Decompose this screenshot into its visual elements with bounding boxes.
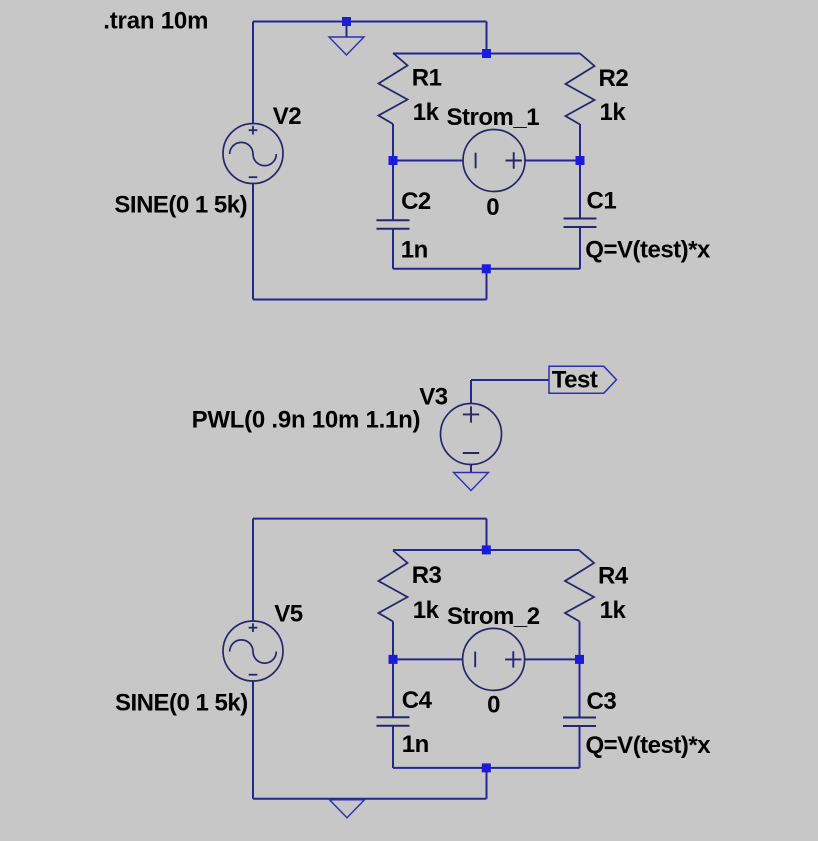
svg-text:PWL(0 .9n 10m 1.1n): PWL(0 .9n 10m 1.1n): [192, 407, 421, 434]
node R4/C3/Strom_2 junction: [575, 655, 584, 664]
wire C2 top lead: [392, 161, 394, 221]
wire node to Strom_2 left pin: [393, 658, 463, 660]
svg-text:Strom_2: Strom_2: [447, 603, 540, 630]
capacitor C3: [563, 718, 596, 727]
svg-text:R2: R2: [599, 65, 629, 92]
resistor R4: [565, 551, 594, 622]
ground bottom (net 0): [330, 800, 365, 818]
wire V2 bottom lead: [252, 184, 254, 300]
0V sense source Strom_2: [463, 628, 525, 690]
wire R3-top to R4-top rail: [393, 549, 580, 551]
ground top (net 0): [329, 37, 364, 55]
svg-text:R1: R1: [412, 65, 442, 92]
svg-text:SINE(0 1 5k): SINE(0 1 5k): [115, 689, 248, 716]
svg-text:V3: V3: [419, 384, 448, 411]
wire R2 bottom lead: [579, 124, 581, 161]
svg-text:V5: V5: [274, 600, 303, 627]
svg-text:Test: Test: [552, 367, 598, 394]
wire R1-top to R2-top rail: [393, 53, 580, 55]
voltage source V2 (sine symbol): [223, 124, 283, 184]
wire top rail bottom circuit: [253, 518, 487, 520]
wire ground stub top: [346, 25, 348, 37]
svg-text:1k: 1k: [600, 597, 627, 624]
wire C3 top lead: [579, 659, 581, 717]
wire V5 bottom lead: [252, 681, 254, 799]
resistor R1: [379, 53, 408, 124]
node cap bottom rail junction: [482, 264, 491, 273]
wire C1 bottom lead: [579, 227, 581, 269]
svg-text:Strom_1: Strom_1: [447, 104, 540, 131]
node drop/R-row junction (bottom circuit): [482, 545, 491, 554]
node R3/C4/Strom_2 junction: [389, 655, 398, 664]
capacitor C1: [564, 219, 597, 228]
wire drop cap-rail to ground rail: [486, 768, 488, 799]
ground middle (under V3): [454, 473, 489, 491]
wire R4 bottom lead: [579, 622, 581, 660]
svg-text:1n: 1n: [401, 236, 428, 263]
svg-text:R3: R3: [412, 562, 442, 589]
svg-text:V2: V2: [273, 103, 302, 130]
node junction top-rail / ground: [342, 17, 351, 26]
capacitor C2: [377, 220, 410, 229]
svg-text:1k: 1k: [413, 597, 440, 624]
node cap bottom rail junction (bottom circuit): [482, 763, 491, 772]
wire C1 top lead: [579, 161, 581, 219]
resistor R2: [566, 54, 595, 125]
wire Strom_1 right pin to node: [525, 160, 580, 162]
wire C2 bottom lead: [392, 229, 394, 269]
wire drop from top rail to R-row: [486, 22, 488, 54]
svg-text:SINE(0 1 5k): SINE(0 1 5k): [114, 192, 247, 219]
svg-text:C2: C2: [401, 188, 431, 215]
wire drop cap-rail to bottom rail: [486, 269, 488, 300]
svg-text:.tran 10m: .tran 10m: [103, 7, 208, 34]
node R1/C2/Strom_1 junction: [389, 156, 398, 165]
svg-text:0: 0: [487, 692, 500, 719]
voltage source V3: [441, 404, 502, 465]
wire top rail (V2+ to mid drop): [253, 21, 487, 23]
wire V2 top lead: [252, 22, 254, 124]
capacitor C4: [377, 717, 410, 726]
wire drop to R-row: [486, 519, 488, 550]
svg-text:Q=V(test)*x: Q=V(test)*x: [586, 732, 712, 759]
net flag Test: [549, 366, 617, 393]
wire cap bottom rail: [393, 268, 580, 270]
node R2/C1/Strom_1 junction: [576, 156, 585, 165]
svg-text:C1: C1: [587, 188, 617, 215]
wire Strom_2 right pin to node: [525, 658, 580, 660]
svg-text:R4: R4: [598, 562, 629, 589]
0V sense source Strom_1: [463, 130, 525, 192]
wire node to Strom_1 left pin: [393, 160, 463, 162]
svg-text:1k: 1k: [600, 99, 627, 126]
wire C4 bottom lead: [392, 726, 394, 768]
svg-text:Q=V(test)*x: Q=V(test)*x: [585, 237, 711, 264]
resistor R3: [379, 551, 408, 622]
wire C4 top lead: [392, 659, 394, 717]
svg-text:1k: 1k: [413, 99, 440, 126]
svg-text:C4: C4: [402, 687, 433, 714]
wire bottom ground rail: [253, 798, 487, 800]
wire cap bottom rail (bottom circuit): [393, 767, 580, 769]
wire V5 top lead: [252, 519, 254, 621]
wire bottom return rail: [253, 299, 487, 301]
svg-text:1n: 1n: [402, 731, 429, 758]
svg-text:0: 0: [486, 194, 499, 221]
wire R1 bottom lead: [392, 124, 394, 161]
wire V3 top lead: [470, 380, 472, 404]
wire V3 to Test flag: [471, 379, 549, 381]
wire R3 bottom lead: [392, 622, 394, 660]
node junction R-row rail: [482, 49, 491, 58]
svg-text:C3: C3: [587, 688, 617, 715]
wire V3 ground stub: [470, 464, 472, 472]
wire C3 bottom lead: [579, 726, 581, 768]
voltage source V5 (sine symbol): [223, 621, 283, 681]
